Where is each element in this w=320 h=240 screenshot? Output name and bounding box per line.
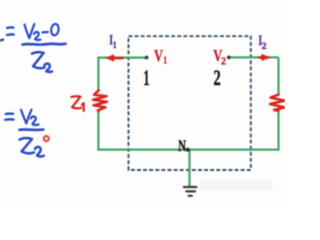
terminal dot V2 xyxy=(227,56,231,60)
svg-text:2: 2 xyxy=(213,65,220,90)
resistor Z2 (right side) xyxy=(270,95,285,111)
equation 2 fraction bar xyxy=(20,128,44,131)
svg-text:1: 1 xyxy=(143,65,149,90)
equation 2 equals sign xyxy=(5,114,13,120)
label Z1 handwritten xyxy=(71,96,84,111)
left edge stray mark 1 xyxy=(0,40,3,41)
watermark smudge xyxy=(200,180,273,190)
node N junction dot xyxy=(186,148,190,152)
red ring annotation after Z2 xyxy=(42,134,51,143)
wire left vertical xyxy=(97,58,99,150)
svg-text:1: 1 xyxy=(113,41,117,51)
svg-text:2: 2 xyxy=(221,56,226,67)
resistor Z1 xyxy=(93,90,107,111)
svg-text:2: 2 xyxy=(262,42,267,52)
equation 1 numerator V2-0 xyxy=(25,23,60,40)
current arrow I2 xyxy=(258,54,270,61)
svg-text:V: V xyxy=(154,46,163,65)
equation 2 denominator Z2 xyxy=(20,138,44,156)
label I1 xyxy=(109,33,117,51)
equation 1 equals sign xyxy=(7,27,14,35)
svg-text:1: 1 xyxy=(163,55,167,66)
equation 1 fraction bar xyxy=(23,42,66,46)
terminal dot V1 xyxy=(145,56,149,60)
equation 1 denominator Z2 xyxy=(32,52,52,72)
label I2 xyxy=(258,33,266,52)
svg-text:N: N xyxy=(178,138,186,155)
wire top right horizontal xyxy=(230,56,279,58)
label V2 xyxy=(213,46,226,68)
wire top left horizontal xyxy=(97,56,146,58)
two-port network dashed box xyxy=(129,36,251,170)
wire ground drop xyxy=(188,150,190,186)
current arrow I1 xyxy=(105,54,123,61)
wire right vertical xyxy=(277,57,279,149)
ground xyxy=(184,187,196,196)
wire bottom horizontal xyxy=(97,149,279,151)
label V1 xyxy=(154,46,167,67)
equation 2 numerator V2 xyxy=(21,110,39,125)
